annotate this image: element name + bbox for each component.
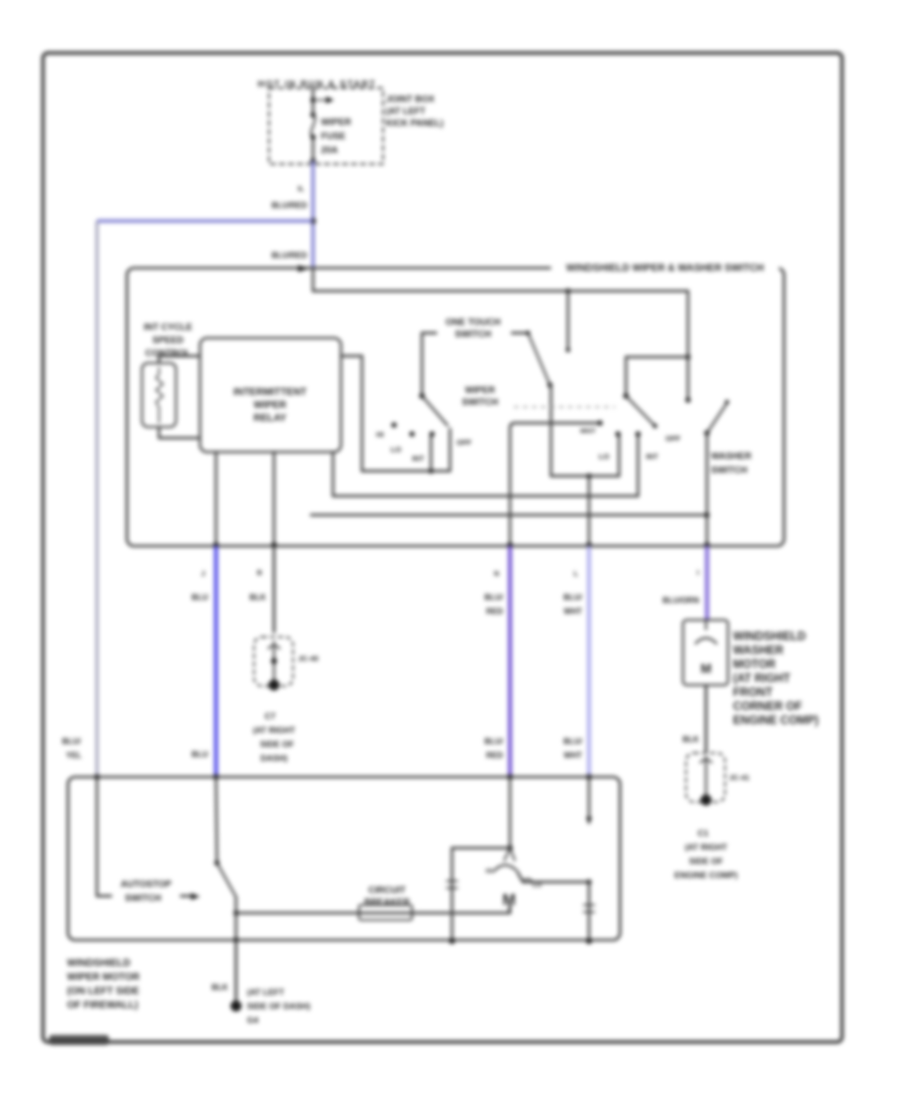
svg-text:SIDE OF DASH): SIDE OF DASH) [247, 1001, 310, 1011]
wire BLU/YEL left vertical [96, 221, 98, 777]
wire BLU/WHT pin L [587, 546, 591, 777]
wire BLU pin J [214, 546, 218, 777]
inline connector on LO wire [583, 905, 595, 912]
wire BLU/ORN pin I [705, 546, 709, 620]
svg-text:BLU/: BLU/ [62, 737, 81, 746]
node pole2 LO contact [615, 431, 620, 436]
svg-text:WIPER MOTOR: WIPER MOTOR [67, 972, 140, 983]
wire autostop to ground bus [235, 897, 237, 940]
node box exit B [271, 542, 277, 548]
node LO wire at bottom [586, 938, 592, 944]
svg-text:LO: LO [391, 445, 402, 454]
node junction one touch feed [565, 288, 570, 293]
wire BLK from washer motor [705, 685, 708, 753]
wire relay bottom pin to pole2 INT contact [333, 436, 638, 496]
wire BLK to ground [235, 940, 238, 1001]
node autostop pivot [214, 860, 219, 865]
svg-text:(AT LEFT: (AT LEFT [386, 106, 426, 116]
wire to park contact [452, 848, 510, 941]
svg-text:(AT RIGHT: (AT RIGHT [685, 842, 728, 852]
svg-text:LO: LO [599, 452, 610, 461]
switch S3 washer arm [707, 403, 727, 433]
svg-text:BLU: BLU [192, 593, 209, 602]
svg-text:BLU/: BLU/ [484, 737, 503, 746]
svg-text:BLU/: BLU/ [563, 593, 582, 602]
windshield wiper motor box [68, 777, 620, 940]
node junction breaker bus [233, 910, 238, 915]
node box exit N [507, 542, 513, 548]
svg-text:N: N [494, 571, 499, 578]
resistor R1 variable speed control [156, 367, 163, 423]
svg-text:RELAY: RELAY [254, 413, 287, 424]
svg-text:WIPER: WIPER [465, 385, 495, 395]
svg-text:JC-40: JC-40 [298, 654, 318, 663]
svg-text:SWITCH: SWITCH [125, 893, 162, 903]
svg-text:M: M [701, 661, 712, 676]
svg-text:DASH): DASH) [261, 753, 288, 763]
switch S2 pole 2 arm [626, 396, 655, 426]
svg-text:BLU/ORN: BLU/ORN [663, 596, 700, 605]
node box exit L [586, 542, 592, 548]
wire INT contact drop [430, 436, 432, 471]
svg-text:ENGINE COMP): ENGINE COMP) [733, 715, 819, 727]
svg-text:SWITCH: SWITCH [711, 465, 748, 475]
switch S1 one touch arm [528, 333, 550, 385]
node junction washer bus [704, 512, 709, 517]
dashed mechanical linkage [505, 406, 615, 408]
node pole2 MIST contact [597, 420, 602, 425]
svg-text:WINDSHIELD WIPER & WASHER SWIT: WINDSHIELD WIPER & WASHER SWITCH [566, 263, 764, 274]
node junction at fuse top [310, 97, 315, 102]
wire BLU/WHT inside box [588, 476, 590, 545]
svg-text:ENGINE COMP): ENGINE COMP) [674, 870, 737, 880]
svg-text:RED: RED [486, 607, 503, 616]
node LO brush junction [586, 879, 591, 884]
node joint box exit [310, 158, 316, 164]
svg-text:(AT RIGHT: (AT RIGHT [253, 725, 296, 735]
svg-text:(ON LEFT SIDE: (ON LEFT SIDE [67, 986, 140, 997]
node pole1 HI contact [391, 422, 396, 427]
svg-text:BLK: BLK [683, 735, 700, 744]
svg-text:BLK: BLK [250, 593, 267, 602]
svg-text:IL: IL [298, 186, 305, 193]
svg-text:YEL: YEL [66, 751, 82, 760]
wire arrow to other circuits [316, 99, 327, 101]
svg-text:WHT: WHT [564, 607, 582, 616]
svg-text:L: L [574, 571, 579, 578]
fuse WIPER 20A [310, 112, 315, 117]
svg-text:C7: C7 [265, 711, 276, 721]
windshield wiper and washer switch box [127, 268, 784, 546]
svg-text:CORNER OF: CORNER OF [733, 701, 802, 713]
int cycle speed control box [142, 363, 176, 427]
svg-text:JOINT BOX: JOINT BOX [386, 94, 435, 104]
node junction motor HI feed [507, 845, 513, 851]
switch box title [551, 261, 779, 275]
switch S2 wiper switch pole 2 pivot [623, 393, 629, 399]
svg-text:AUTOSTOP: AUTOSTOP [121, 879, 172, 889]
svg-text:BLU/: BLU/ [563, 737, 582, 746]
svg-text:MOTOR: MOTOR [733, 659, 776, 671]
connector JC-40 [254, 637, 293, 686]
node park wire at bottom [449, 938, 455, 944]
svg-text:J: J [201, 571, 205, 578]
node pole1 LO contact [409, 431, 414, 436]
joint box (dashed outline) [269, 88, 383, 164]
node pole1 INT contact [429, 431, 434, 436]
node ground bus at box edge [233, 937, 238, 942]
wire BLU/RED vertical from fuse to switch box [311, 161, 314, 268]
relay U1 intermittent wiper relay box [200, 338, 341, 452]
svg-text:FRONT: FRONT [733, 687, 773, 699]
switch S2 wiper switch pole 1 pivot [419, 393, 425, 399]
node entry BLU/YEL [94, 774, 100, 780]
wire relay output J [215, 452, 217, 545]
svg-text:B: B [257, 570, 262, 577]
svg-text:WASHER: WASHER [733, 645, 784, 657]
wire BLU/RED mist feed inside box [510, 423, 600, 545]
entry arrow at box edge [298, 265, 309, 272]
svg-text:WINDSHIELD: WINDSHIELD [67, 958, 130, 969]
wire BLU/RED horizontal branch [97, 219, 313, 222]
wire relay right pin to OFF/INT bus [341, 356, 450, 471]
wire relay output B [273, 452, 275, 545]
node entry BLU/RED [507, 774, 513, 780]
wire BLU/RED inside to motor [509, 777, 511, 848]
svg-text:SWITCH: SWITCH [455, 329, 492, 339]
node one touch fixed contact [566, 348, 570, 352]
svg-text:CIRCUIT: CIRCUIT [368, 885, 406, 895]
svg-text:OFF: OFF [666, 434, 681, 443]
wire LO brush down [588, 882, 590, 941]
wire washer pivot down [706, 433, 708, 545]
svg-text:SWITCH: SWITCH [462, 397, 499, 407]
svg-text:KICK PANEL): KICK PANEL) [386, 118, 443, 128]
svg-text:SIDE OF: SIDE OF [689, 856, 723, 866]
svg-text:OF FIREWALL): OF FIREWALL) [67, 1000, 138, 1011]
svg-text:G4: G4 [247, 1015, 259, 1025]
node pole2 INT contact [635, 431, 640, 436]
wire feed inside joint box [312, 89, 314, 161]
motor M2 windshield wiper motor brushes [504, 848, 515, 861]
wire BLU/RED pin N [508, 546, 512, 777]
svg-text:BLU/RED: BLU/RED [271, 251, 307, 260]
svg-text:MIST: MIST [580, 428, 596, 435]
circuit breaker CB1 [359, 905, 412, 920]
node washer switch fixed contact [685, 397, 690, 402]
node box exit J [213, 542, 219, 548]
wire bus to circuit breaker and motor [236, 905, 510, 913]
wire feed to pole2 pivot [626, 357, 688, 396]
svg-text:BLU/: BLU/ [484, 593, 503, 602]
svg-text:INT: INT [646, 452, 659, 461]
svg-text:(AT RIGHT: (AT RIGHT [733, 673, 790, 685]
svg-text:20A: 20A [321, 145, 338, 155]
svg-text:WHT: WHT [564, 751, 582, 760]
wire bus to washer pivot [311, 514, 707, 516]
ground G4 terminal [231, 1001, 242, 1012]
wire one touch switch feed bracket [422, 333, 528, 396]
svg-text:FUSE: FUSE [321, 131, 346, 141]
switch S2 pole 1 arm [422, 396, 448, 426]
node one touch arm contact [547, 382, 552, 387]
svg-text:WINDSHIELD: WINDSHIELD [733, 631, 806, 643]
node junction at pole2 feed [685, 354, 690, 359]
svg-text:INTERMITTENT: INTERMITTENT [233, 387, 306, 398]
node entry BLU/WHT [586, 774, 592, 780]
svg-text:BLU: BLU [192, 750, 209, 759]
svg-text:WIPER: WIPER [321, 117, 351, 127]
wire LO brush to BLU/WHT [518, 873, 589, 882]
switch S4 autostop arm [217, 863, 236, 897]
svg-text:BREAKER: BREAKER [364, 897, 410, 907]
svg-text:RED: RED [486, 751, 503, 760]
wire entry jog to inner supply bus [313, 268, 688, 291]
ground joint connector terminal [269, 680, 280, 691]
svg-text:INT CYCLE: INT CYCLE [144, 322, 193, 332]
wire one touch arm down to BLU/WHT junction [551, 385, 619, 476]
svg-text:BLU/RED: BLU/RED [271, 201, 307, 210]
svg-text:SIDE OF: SIDE OF [260, 739, 294, 749]
wire motor common to breaker bus [509, 906, 511, 913]
wire BLU/WHT stub with arrow [588, 777, 590, 818]
svg-text:ONE TOUCH: ONE TOUCH [446, 317, 501, 327]
svg-text:BLK: BLK [212, 983, 229, 992]
wire control top to relay [159, 356, 200, 363]
svg-text:HI: HI [486, 868, 493, 875]
svg-text:C1: C1 [698, 828, 709, 838]
node junction BLU/RED branch [310, 218, 316, 224]
inline connector on park wire [446, 881, 458, 888]
node box exit I [704, 542, 710, 548]
switch S3 washer switch pivot [704, 430, 710, 436]
node junction BLU/WHT [586, 473, 591, 478]
wire BLU inside to autostop [216, 777, 217, 863]
wire control bottom to relay [159, 427, 200, 438]
svg-text:WIPER: WIPER [254, 400, 288, 411]
node junction INT drop [428, 468, 433, 473]
wire BLU/YEL inside to autostop contact [97, 777, 192, 896]
svg-text:HI: HI [376, 430, 384, 439]
wire right feed down to washer contact [687, 291, 689, 400]
svg-text:SPEED: SPEED [152, 335, 184, 345]
wire one touch fixed contact drop [567, 291, 569, 350]
svg-text:INT: INT [412, 454, 425, 463]
wire BLK pin B [273, 546, 276, 633]
node entry BLU [213, 774, 219, 780]
svg-text:I: I [697, 570, 699, 577]
connector JC-41 [686, 753, 725, 802]
svg-text:OFF: OFF [457, 438, 472, 447]
wire OFF contact drop [449, 429, 451, 471]
svg-text:(AT LEFT: (AT LEFT [247, 987, 285, 997]
ground joint connector terminal [701, 795, 712, 806]
motor M1 windshield washer motor [683, 620, 728, 685]
svg-text:JC-41: JC-41 [729, 773, 749, 782]
svg-text:WASHER: WASHER [711, 451, 752, 461]
